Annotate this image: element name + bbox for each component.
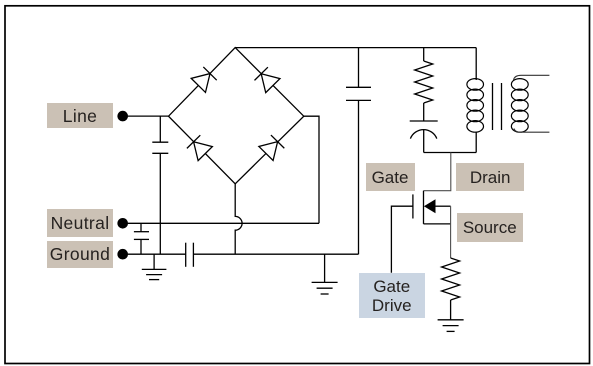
node Neutral terminal dot	[117, 218, 128, 229]
diode D2 (upper-right)	[254, 67, 280, 93]
diode D3 (lower-left)	[186, 135, 212, 161]
node Line label	[47, 103, 113, 128]
transistor Q1 gate bar	[412, 194, 414, 218]
node Gate Drive label	[359, 273, 426, 318]
wire Ground rail left segment	[126, 253, 186, 255]
transformer T1 primary feed	[475, 48, 477, 80]
ground GND2 (DC minus earth)	[312, 254, 338, 294]
node Neutral label	[47, 209, 113, 237]
transformer T1 core	[493, 83, 502, 130]
wire T1 secondary bottom terminal	[514, 129, 549, 133]
resistor R1 (snubber)	[415, 61, 433, 103]
node Line terminal dot	[117, 111, 128, 122]
wire T1 secondary top terminal	[514, 75, 550, 80]
wire Line to bridge left corner	[126, 115, 169, 117]
ground GND3	[438, 320, 464, 332]
wire Neutral rail	[126, 222, 319, 224]
node Drain label	[456, 163, 524, 192]
diode bridge diamond	[169, 48, 304, 184]
transistor Q1 source bottom lead	[424, 223, 451, 225]
diode D4 (lower-right)	[259, 135, 285, 161]
transformer T1 primary winding	[467, 79, 484, 133]
resistor R2 (source)	[442, 258, 460, 300]
transistor Q1 channel	[423, 191, 425, 224]
capacitor C1 (line X-cap)	[152, 142, 168, 153]
wire C1 to ground rail	[159, 153, 161, 254]
transformer T1 secondary winding	[511, 79, 528, 133]
wire drain drop to MOSFET	[424, 153, 451, 191]
wire snubber branch top	[423, 48, 425, 61]
node Gate label	[366, 163, 415, 192]
diode D1 (upper-left)	[191, 67, 217, 93]
transistor Q1 body arrow	[424, 199, 451, 213]
wire source down to R2	[450, 206, 452, 258]
wire bridge right corner to neutral	[304, 116, 319, 223]
wire Ground rail right segment	[193, 253, 358, 255]
wire Line drop to capacitor C1	[159, 116, 161, 142]
wire drain junction horizontal	[424, 152, 477, 154]
ground GND1	[142, 254, 167, 279]
capacitor C2 (neutral-to-ground)	[134, 223, 149, 254]
capacitor C3 (Y-cap in ground rail)	[186, 243, 194, 267]
node Ground terminal dot	[117, 249, 128, 260]
capacitor C4 (bulk cap)	[346, 48, 371, 255]
wire T1 primary bottom to drain junction	[475, 132, 477, 153]
wire top DC rail	[235, 47, 476, 49]
wire R1 to C5	[423, 103, 425, 121]
wire bridge bottom corner down with hop over neutral	[235, 184, 242, 254]
wire R2 to ground	[450, 300, 452, 320]
capacitor C5 (snubber cap, curved plate)	[410, 121, 438, 153]
node Ground label	[47, 241, 113, 269]
wire gate lead	[391, 206, 413, 273]
node Source label	[457, 213, 524, 242]
